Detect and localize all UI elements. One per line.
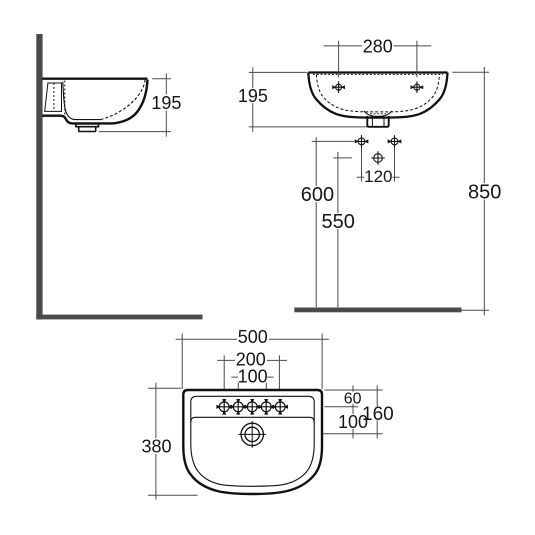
basin front view rim lip dashed bbox=[313, 73, 443, 75]
svg-text:120: 120 bbox=[364, 167, 392, 186]
dim 195 side: extension line bottom bbox=[99, 131, 171, 133]
basin side view rim bbox=[42, 77, 147, 79]
svg-text:850: 850 bbox=[468, 181, 501, 203]
dim 100: dimension line bbox=[231, 376, 273, 378]
tap hole left front view bbox=[333, 81, 345, 93]
overflow hole centre bbox=[371, 151, 385, 165]
floor (front view, grey bar) bbox=[294, 308, 461, 313]
ledge line plan view bbox=[191, 417, 314, 422]
basin front view inner bowl dashed bbox=[316, 75, 439, 112]
dim 380: label bbox=[142, 438, 172, 454]
fixing bracket side view bbox=[45, 83, 62, 111]
drain plan view bbox=[238, 421, 266, 448]
basin plan view inner outline bbox=[191, 396, 314, 486]
basin side view inner bowl solid bbox=[63, 82, 101, 120]
svg-text:380: 380 bbox=[141, 437, 171, 457]
trap hidden edge dashed bbox=[370, 113, 386, 115]
dim 200: label bbox=[235, 353, 267, 366]
drain boss front view bbox=[364, 111, 392, 116]
dim 380: extension lines bbox=[148, 388, 198, 495]
dim 100 right: dimension line bbox=[352, 402, 354, 438]
waste trap side view body bbox=[79, 127, 96, 132]
dim 195 front: extension top bbox=[249, 71, 307, 73]
dim 280: extension lines bbox=[339, 41, 417, 77]
svg-text:100: 100 bbox=[238, 366, 268, 386]
svg-text:195: 195 bbox=[238, 86, 268, 106]
wall fixing hole right bbox=[388, 135, 401, 148]
waste trap front view bbox=[367, 116, 388, 127]
dim 500: label bbox=[237, 329, 269, 343]
waste trap side view flange bbox=[76, 124, 99, 127]
tap hole plan 2 bbox=[231, 400, 245, 414]
dim 100: extension lines bbox=[238, 372, 266, 389]
tap hole plan 5 bbox=[273, 400, 287, 414]
basin front view rim bbox=[308, 71, 447, 73]
dim 550: dimension line bbox=[337, 152, 339, 307]
dim 60: dimension line bbox=[352, 385, 354, 411]
svg-text:550: 550 bbox=[322, 211, 355, 233]
svg-text:195: 195 bbox=[151, 93, 181, 113]
dim 600: label bbox=[303, 186, 332, 202]
wall (side view, grey bar) bbox=[36, 34, 42, 319]
bracket hidden line dashed 2 bbox=[64, 81, 66, 119]
tap hole plan 3 bbox=[245, 400, 259, 414]
basin side view outer profile bbox=[42, 80, 147, 124]
floor extension line right bbox=[462, 309, 490, 311]
dim 60: label bbox=[343, 392, 363, 404]
dim 280: label bbox=[362, 39, 394, 53]
svg-text:280: 280 bbox=[363, 36, 393, 56]
dim 380: dimension line bbox=[155, 383, 157, 500]
tap hole right front view bbox=[411, 81, 423, 93]
wall fixing hole left bbox=[355, 135, 368, 148]
dim 550: extension line bbox=[333, 157, 352, 159]
dim 280: dimension line bbox=[323, 45, 431, 47]
dim 195 front: dimension line bbox=[252, 67, 254, 132]
dim 120: extension lines bbox=[362, 148, 395, 182]
svg-text:60: 60 bbox=[344, 390, 362, 407]
basin plan view outer outline bbox=[183, 390, 322, 494]
dim 550: label bbox=[324, 213, 353, 229]
floor (side view, grey bar) bbox=[36, 315, 202, 320]
dim 120: label bbox=[364, 169, 392, 182]
waste trap front view inner lines bbox=[372, 117, 384, 127]
dim 160: dimension line bbox=[376, 385, 378, 438]
tap hole plan 4 bbox=[259, 400, 273, 414]
plan right extension line bottom bbox=[323, 433, 383, 435]
dim 100: label bbox=[238, 370, 267, 383]
plan right extension line top bbox=[325, 389, 383, 391]
dim 850: extension line top bbox=[452, 71, 489, 73]
dim 850: label bbox=[470, 183, 500, 200]
dim 195 side: label bbox=[153, 95, 180, 111]
dim 500: extension lines bbox=[182, 334, 322, 390]
basin side view inner bowl hidden (dashed) bbox=[101, 80, 146, 120]
dim 850: dimension line bbox=[483, 67, 485, 315]
dim 195 front: label bbox=[239, 88, 266, 103]
dim 600: extension line bbox=[312, 140, 354, 142]
dim 120: dimension line bbox=[357, 176, 400, 178]
dim 500: dimension line bbox=[176, 338, 329, 340]
basin front view outer profile bbox=[308, 73, 447, 118]
dim 195 front: extension bottom bbox=[249, 126, 367, 128]
dim 195 side: dimension line bbox=[165, 74, 167, 137]
dim 200: extension lines bbox=[224, 355, 279, 389]
dim 195 side: extension line top bbox=[152, 78, 171, 80]
bracket hidden line dashed bbox=[53, 83, 55, 111]
svg-text:160: 160 bbox=[362, 404, 394, 425]
svg-text:600: 600 bbox=[301, 184, 334, 206]
plan right extension line middle bbox=[325, 406, 359, 408]
dim 600: dimension line bbox=[315, 137, 317, 307]
tap hole plan 1 bbox=[217, 400, 231, 414]
svg-text:500: 500 bbox=[238, 327, 268, 347]
dim 200: dimension line bbox=[217, 359, 287, 361]
